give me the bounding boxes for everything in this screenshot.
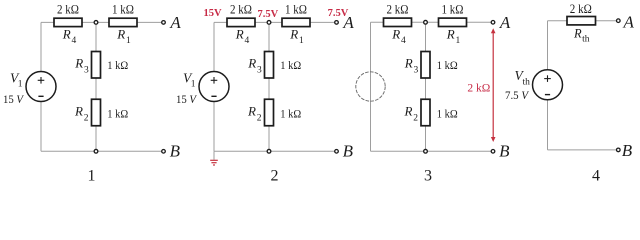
svg-text:R4: R4	[235, 26, 250, 46]
svg-text:2 kΩ: 2 kΩ	[230, 2, 252, 16]
wire left branch panel 1	[40, 22, 42, 151]
terminal node B (panel 3)	[491, 150, 495, 154]
svg-text:7.5 V: 7.5 V	[505, 90, 529, 102]
wire bottom rail panel 3	[371, 150, 492, 152]
svg-text:2 kΩ: 2 kΩ	[570, 2, 592, 16]
svg-text:B: B	[622, 141, 633, 160]
voltage source V1 (panel 2)	[199, 72, 229, 102]
dashed circle (removed source) panel 3	[356, 72, 385, 101]
resistor R4	[54, 18, 82, 26]
resistor R3 (panel 3)	[421, 52, 430, 79]
svg-text:R3: R3	[74, 56, 89, 76]
resistor R2	[92, 99, 101, 126]
svg-text:R2: R2	[74, 104, 89, 124]
resistor Rth	[567, 17, 596, 25]
svg-text:R2: R2	[247, 104, 262, 124]
terminal node B	[162, 150, 166, 154]
svg-text:1: 1	[88, 168, 96, 185]
svg-text:1 kΩ: 1 kΩ	[107, 58, 128, 72]
terminal node A (panel 2)	[335, 21, 339, 25]
svg-text:R4: R4	[62, 26, 77, 46]
svg-text:R3: R3	[247, 56, 262, 76]
svg-text:2: 2	[271, 168, 279, 185]
wire top rail panel 2	[214, 21, 335, 23]
terminal node B (panel 2)	[335, 150, 339, 154]
node junction R4-R1 (panel 3)	[424, 20, 428, 24]
svg-text:B: B	[343, 142, 354, 161]
svg-text:2 kΩ: 2 kΩ	[57, 2, 79, 16]
wire bottom rail panel 4	[548, 149, 617, 151]
wire top rail panel 3	[371, 21, 492, 23]
svg-text:3: 3	[424, 168, 432, 185]
svg-text:1 kΩ: 1 kΩ	[442, 2, 464, 16]
svg-text:R1: R1	[446, 26, 461, 46]
node junction R4-R1 (panel 2)	[267, 21, 271, 25]
wire top rail panel 4	[548, 20, 617, 22]
svg-text:1 kΩ: 1 kΩ	[112, 2, 134, 16]
terminal node A (panel 3)	[491, 21, 495, 25]
node junction R4-R1	[94, 21, 98, 25]
ground stub wire	[213, 151, 215, 160]
svg-text:1 kΩ: 1 kΩ	[280, 107, 301, 121]
node junction bottom (panel 3)	[424, 149, 428, 153]
wire left branch panel 4	[547, 21, 549, 150]
svg-text:1 kΩ: 1 kΩ	[285, 2, 307, 16]
svg-text:R2: R2	[404, 104, 419, 124]
resistor R3	[92, 52, 101, 79]
wire bottom rail panel 2	[214, 150, 335, 152]
wire left branch panel 3	[370, 22, 372, 151]
resistor R2 (panel 3)	[421, 99, 430, 126]
resistor R1	[109, 18, 137, 26]
svg-text:1 kΩ: 1 kΩ	[280, 58, 301, 72]
node junction bottom (panel 2)	[267, 149, 271, 153]
resistor R3 (panel 2)	[265, 52, 274, 79]
svg-text:4: 4	[592, 168, 600, 185]
svg-text:R1: R1	[116, 26, 131, 46]
svg-text:R3: R3	[404, 56, 419, 76]
red double arrow A-B (equivalent resistance)	[491, 28, 496, 142]
svg-text:A: A	[169, 13, 181, 32]
wire middle branch panel 3	[425, 22, 427, 151]
svg-text:7.5V: 7.5V	[257, 9, 278, 20]
wire middle branch panel 1	[95, 22, 97, 151]
svg-text:15 V: 15 V	[176, 94, 197, 106]
svg-text:Rth: Rth	[573, 26, 590, 44]
svg-text:A: A	[499, 13, 511, 32]
svg-text:7.5V: 7.5V	[328, 8, 349, 19]
resistor R1 (panel 3)	[439, 18, 467, 26]
svg-text:1 kΩ: 1 kΩ	[437, 107, 458, 121]
svg-text:V1: V1	[183, 71, 196, 90]
voltage source Vth	[533, 70, 563, 100]
svg-text:Vth: Vth	[515, 68, 531, 88]
svg-text:B: B	[499, 142, 510, 161]
svg-text:1 kΩ: 1 kΩ	[107, 107, 128, 121]
wire middle branch panel 2	[268, 22, 270, 151]
svg-text:2 kΩ: 2 kΩ	[387, 2, 409, 16]
wire bottom rail panel 1	[41, 150, 162, 152]
svg-text:2 kΩ: 2 kΩ	[467, 83, 490, 95]
svg-text:R4: R4	[391, 26, 406, 46]
terminal node A	[162, 21, 166, 25]
resistor R1 (panel 2)	[282, 18, 310, 26]
voltage source V1	[26, 72, 56, 102]
svg-text:15V: 15V	[203, 8, 222, 19]
resistor R2 (panel 2)	[265, 99, 274, 126]
resistor R4 (panel 3)	[384, 18, 412, 26]
svg-text:A: A	[623, 12, 635, 31]
wire left branch panel 2	[213, 22, 215, 151]
node junction bottom	[94, 149, 98, 153]
resistor R4 (panel 2)	[227, 18, 255, 26]
wire top rail panel 1	[41, 21, 162, 23]
svg-text:1 kΩ: 1 kΩ	[437, 58, 458, 72]
ground symbol	[210, 160, 218, 165]
svg-text:B: B	[170, 142, 181, 161]
svg-text:15 V: 15 V	[3, 94, 24, 106]
svg-text:R1: R1	[289, 26, 304, 46]
svg-text:V1: V1	[10, 71, 23, 90]
terminal node B (panel 4)	[617, 148, 621, 152]
terminal node A (panel 4)	[617, 19, 621, 23]
